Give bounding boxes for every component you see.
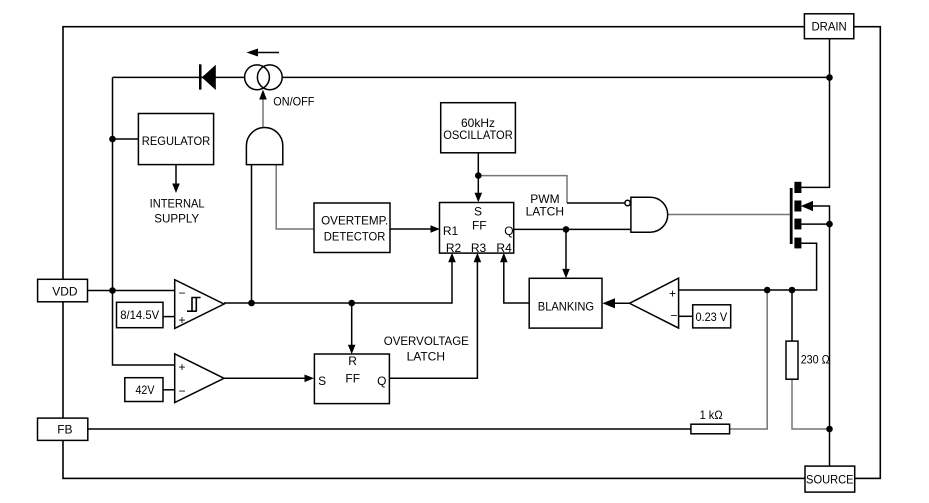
node: AND input junction [248,300,255,307]
source contact [794,238,801,249]
pin box DRAIN [804,14,853,39]
hysteresis glyph [187,298,201,312]
node: sense line / 1k junction [764,287,771,294]
wire: 0.23V reference to comparator [679,315,693,317]
svg-text:8/14.5V: 8/14.5V [120,308,159,322]
svg-text:R: R [348,354,357,368]
wire: NAND bubble input segment [567,202,625,204]
svg-text:R3: R3 [471,241,487,255]
svg-text:S: S [474,204,482,218]
svg-text:−: − [670,308,677,322]
svg-text:OVERVOLTAGE: OVERVOLTAGE [384,334,469,348]
oscillator block [441,103,516,153]
wire: overvoltage latch Q to R3 [390,260,478,379]
wire: blanking to R4 [504,260,529,304]
arrow: into R4 (up) [500,253,508,262]
svg-text:+: + [178,313,185,327]
svg-text:OSCILLATOR: OSCILLATOR [443,128,513,142]
svg-text:LATCH: LATCH [407,350,445,364]
regulator block [138,114,213,165]
pin box FB [38,418,88,440]
wire: NAND output to MOSFET gate [668,214,790,216]
svg-text:−: − [178,384,185,398]
wire: MOSFET tap to body line [801,223,829,225]
svg-text:+: + [669,287,676,301]
value box 42V [125,378,175,402]
current source CS1 [245,65,283,90]
svg-text:230 Ω: 230 Ω [801,353,830,367]
svg-text:R1: R1 [443,224,459,238]
svg-text:DETECTOR: DETECTOR [324,230,386,244]
drain contact [794,182,801,193]
comparator U2 (UV/hysteresis) [175,280,224,329]
pin box VDD [38,279,88,302]
svg-text:INTERNAL: INTERNAL [150,196,205,210]
resistor 1 kohm [691,408,730,434]
node: regulator tap [109,136,116,143]
label: internal supply [150,196,205,225]
svg-text:R2: R2 [446,241,462,255]
diode D1 [199,64,216,90]
svg-text:ON/OFF: ON/OFF [273,95,314,109]
svg-text:LATCH: LATCH [526,205,564,219]
overvoltage latch FF2 [314,354,389,404]
arrow: into overvoltage latch R (down) [348,345,356,354]
wire: FF Q to NAND bottom input [514,228,631,230]
wire: drain vertical to MOSFET [801,39,829,188]
pin box SOURCE [805,466,855,492]
svg-text:−: − [178,286,185,300]
comparator U6 (current limit, points left) [630,278,679,328]
gate bar [790,188,793,244]
arrow: overtemp to R1 (right) [431,225,441,233]
svg-text:+: + [178,360,185,374]
svg-text:S: S [318,374,326,388]
wire: comparator U2 output to R2 [224,260,452,304]
PWM latch FF1 [440,203,514,256]
svg-text:FB: FB [57,422,72,436]
svg-text:SOURCE: SOURCE [806,472,854,486]
overtemp detector block [314,203,390,253]
arrow: into R3 (up) [474,253,482,262]
svg-text:FF: FF [472,219,487,233]
node: oscillator junction [475,172,482,179]
value box 8/14.5V [117,302,175,327]
node: MOSFET tap junction [826,221,833,228]
svg-text:1 kΩ: 1 kΩ [700,408,723,422]
node: source junction [826,426,833,433]
svg-text:Q: Q [504,224,513,238]
label: overvoltage latch [384,334,469,364]
wire: current sense line to MOSFET source [679,243,817,290]
svg-text:42V: 42V [136,383,155,397]
svg-text:REGULATOR: REGULATOR [142,134,211,148]
wire: MOSFET body line to source [811,206,830,466]
wire: FB to 1k resistor [88,428,691,430]
svg-text:VDD: VDD [52,284,78,298]
node: PWM latch Q junction [563,226,570,233]
label: PWM latch [526,192,564,219]
AND gate U4 (on/off) [246,128,282,165]
arrow: into R2 (up) [448,253,456,262]
wire: 230 ohm top lead [791,290,793,341]
wire: 230 ohm bottom lead [792,379,830,429]
wire: oscillator to S input [477,153,479,196]
wire: comparator U3 output to overvoltage latch S [224,377,308,379]
node: sense line / 230 ohm junction [789,287,796,294]
svg-text:Q: Q [377,374,386,388]
resistor 230 ohm [786,341,830,379]
wire: regulator to internal supply [175,165,177,185]
wire: current source to drain node [282,76,830,78]
wire: AND gate right input to overtemp detector [276,165,314,229]
value box 0.23 V [693,305,731,328]
wire: regulator tap [113,138,139,140]
node: VDD junction [109,287,116,294]
comparator U3 (overvoltage) [175,354,224,403]
svg-text:SUPPLY: SUPPLY [154,211,199,225]
svg-text:0.23 V: 0.23 V [695,310,727,324]
node: drain junction [826,74,833,81]
blanking block [529,278,602,328]
arrow: into blanking top (down) [562,269,570,278]
wire: overtemp detector to R1 [390,228,434,230]
node: overvoltage R junction [348,300,355,307]
arrow: current direction (left) [247,49,259,57]
arrow: regulator to internal supply (down) [172,184,180,194]
wire: node to overvoltage latch R [351,303,353,348]
wire: blanking comparator output [613,302,630,304]
wire: current direction arrow line [254,52,279,54]
MOSFET Q1 [790,182,813,249]
wire: VDD rail top (diode branch) [113,76,246,78]
wire: VDD to comparator U2 inverting input [88,290,175,292]
body contact [794,201,801,212]
arrow: oscillator into S (down) [475,193,483,202]
svg-text:BLANKING: BLANKING [538,299,594,313]
arrow: blanking comparator into blanking (left) [602,298,615,308]
svg-text:FF: FF [345,371,360,385]
tap contact [794,219,801,230]
arrow: into overvoltage latch S (right) [305,375,315,383]
NAND gate U5 [625,197,668,232]
svg-text:DRAIN: DRAIN [811,19,846,33]
NAND input bubble [625,200,630,205]
wire: left vertical rail to comparator U3 [113,78,175,366]
svg-text:OVERTEMP.: OVERTEMP. [321,214,388,228]
wire: 1k resistor to sense line [730,290,768,429]
svg-text:R4: R4 [496,241,512,255]
wire: AND gate left input [251,165,253,303]
IC boundary [63,27,880,479]
wire: AND gate output to current source [262,94,264,128]
body arrow [801,201,813,211]
wire: oscillator to NAND top input [478,176,567,203]
wire: Q node to blanking top input [565,229,567,272]
arrow: into current source (up) [259,90,267,100]
